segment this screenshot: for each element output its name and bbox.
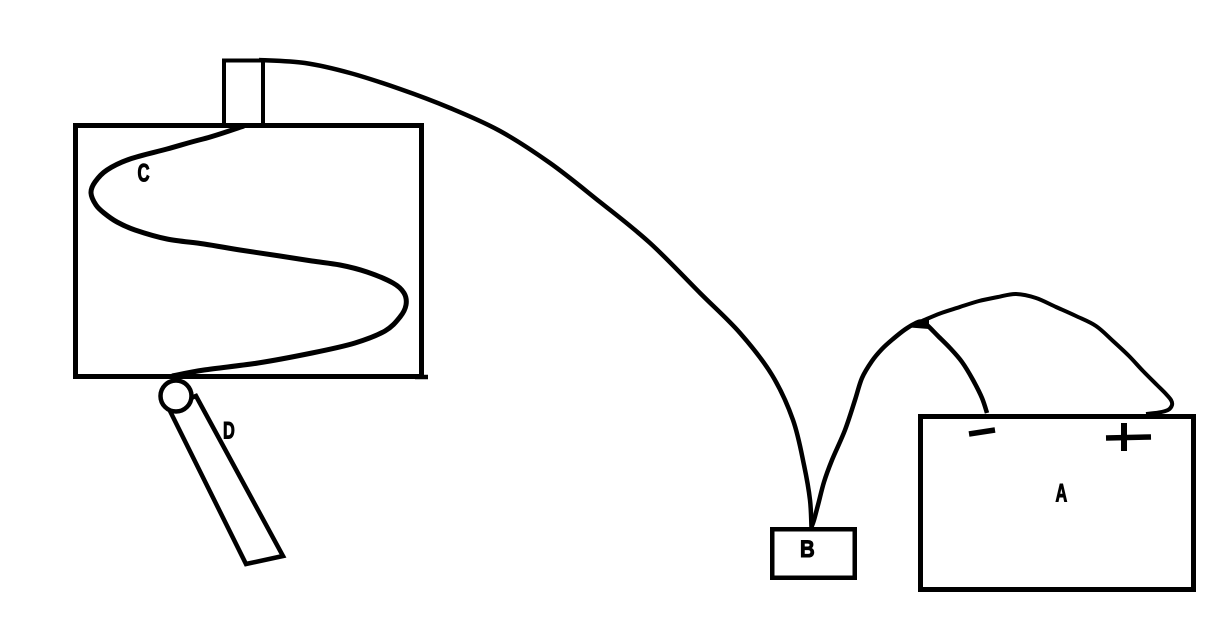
coil S-curve	[91, 126, 406, 376]
battery A	[921, 417, 1194, 590]
coil box C	[76, 126, 422, 377]
svg-text:B: B	[800, 535, 815, 562]
svg-text:D: D	[223, 417, 235, 444]
contact block B	[772, 529, 855, 578]
plus terminal mark	[1106, 437, 1151, 438]
wire B to minus terminal	[812, 321, 988, 527]
branch knot at wire junction	[910, 318, 929, 330]
svg-text:C: C	[138, 159, 150, 187]
svg-text:A: A	[1056, 480, 1068, 507]
wire B to plus terminal	[922, 294, 1172, 414]
minus terminal mark	[969, 430, 995, 434]
bottom edge overhang	[415, 375, 428, 380]
pivot circle	[161, 381, 192, 412]
rod D	[168, 396, 283, 564]
wire C to B	[259, 60, 812, 527]
terminal post on coil box	[224, 61, 263, 126]
